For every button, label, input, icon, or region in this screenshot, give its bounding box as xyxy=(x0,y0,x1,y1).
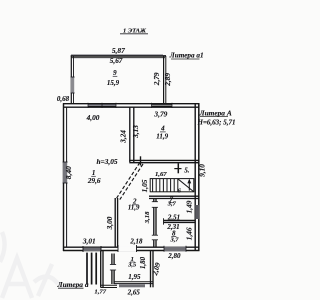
svg-text:2,79: 2,79 xyxy=(152,72,161,86)
svg-text:3,79: 3,79 xyxy=(153,109,167,118)
svg-text:2,18: 2,18 xyxy=(129,238,143,245)
window in bottom wall above porch xyxy=(83,248,101,251)
dashed stair-overhead diagonals xyxy=(117,163,143,200)
svg-text:3,13: 3,13 xyxy=(131,125,140,139)
watermark xyxy=(0,232,58,298)
vestibule right wall xyxy=(150,251,152,288)
porch steps (Литера а) xyxy=(87,253,96,285)
annex left wall hatch xyxy=(71,77,74,93)
svg-text:3,01: 3,01 xyxy=(82,236,96,245)
svg-text:3,24: 3,24 xyxy=(119,130,128,144)
svg-text:1,05: 1,05 xyxy=(140,179,149,192)
door mark near room 5 xyxy=(177,163,179,173)
svg-text:0,68: 0,68 xyxy=(57,95,70,103)
annex a1 top wall xyxy=(71,55,166,57)
svg-text:5.: 5. xyxy=(184,167,189,174)
main bottom wall xyxy=(63,246,200,248)
svg-text:3,7: 3,7 xyxy=(170,236,180,243)
svg-text:Литера а1: Литера а1 xyxy=(169,52,204,60)
vestibule bottom walls xyxy=(101,284,117,286)
annex a1 left wall xyxy=(70,55,72,103)
wall rooms 7|8 xyxy=(164,219,196,221)
svg-text:1,46: 1,46 xyxy=(185,227,194,240)
svg-text:3,18: 3,18 xyxy=(144,211,151,224)
svg-text:Н=6,63; 5,71: Н=6,63; 5,71 xyxy=(197,118,236,126)
svg-text:11,9: 11,9 xyxy=(156,132,168,140)
svg-text:3,00: 3,00 xyxy=(105,216,114,230)
svg-text:2,65: 2,65 xyxy=(127,289,141,297)
annex a1 right wall xyxy=(163,56,165,104)
vestibule partition xyxy=(112,254,114,285)
step hatch under room 3 xyxy=(119,284,145,287)
svg-text:9,10: 9,10 xyxy=(198,164,207,177)
svg-text:1,80: 1,80 xyxy=(140,256,147,269)
svg-text:5,87: 5,87 xyxy=(112,46,125,55)
svg-text:29,6: 29,6 xyxy=(87,177,101,185)
main left wall xyxy=(63,103,65,251)
main right wall xyxy=(194,103,196,251)
svg-text:9: 9 xyxy=(113,69,117,77)
vestibule left wall xyxy=(100,251,102,288)
svg-text:1,67: 1,67 xyxy=(155,171,167,178)
hatch in right wall xyxy=(195,205,199,219)
door gap in bottom wall xyxy=(118,246,137,251)
wall below stairs xyxy=(149,195,199,197)
window in left wall xyxy=(63,162,67,183)
svg-text:Литера а: Литера а xyxy=(57,280,89,289)
room 2 left wall xyxy=(114,198,116,247)
svg-text:h=3,05: h=3,05 xyxy=(97,157,118,166)
svg-text:8,40: 8,40 xyxy=(64,166,73,179)
stairs xyxy=(150,179,194,192)
svg-text:1,49: 1,49 xyxy=(185,200,194,213)
wall below room 4 xyxy=(129,159,199,161)
svg-text:3,7: 3,7 xyxy=(167,201,177,208)
svg-text:15,9: 15,9 xyxy=(107,79,120,87)
svg-text:4,00: 4,00 xyxy=(86,113,100,122)
window in top wall (left) xyxy=(88,103,116,108)
stair arrow xyxy=(188,182,190,191)
svg-text:2,80: 2,80 xyxy=(167,252,181,260)
svg-text:11,9: 11,9 xyxy=(128,204,140,211)
svg-text:3,5: 3,5 xyxy=(127,261,137,268)
rooms 7/8 left wall xyxy=(154,199,156,248)
window in top wall (under annex) xyxy=(152,103,173,108)
svg-text:1,77: 1,77 xyxy=(94,289,106,296)
door jamb tick xyxy=(140,156,142,165)
main top wall xyxy=(63,103,200,105)
svg-text:2,89: 2,89 xyxy=(163,73,172,87)
svg-text:1,95: 1,95 xyxy=(128,273,141,281)
svg-text:1: 1 xyxy=(92,169,96,177)
window in bottom wall xyxy=(164,247,186,252)
svg-text:5,67: 5,67 xyxy=(110,57,123,65)
interior wall rooms 1|4 xyxy=(129,107,131,162)
